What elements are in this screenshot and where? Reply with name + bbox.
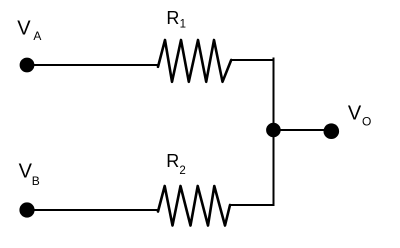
- svg-text:R: R: [166, 8, 179, 28]
- svg-text:O: O: [362, 115, 371, 129]
- terminal VA: [20, 58, 35, 73]
- terminal VB: [19, 202, 34, 217]
- node junction: [266, 123, 281, 138]
- svg-text:B: B: [32, 174, 40, 188]
- wire R1 to vertical: [231, 59, 274, 61]
- resistor R1: [158, 40, 231, 82]
- svg-text:V: V: [348, 102, 362, 124]
- svg-text:1: 1: [180, 19, 186, 31]
- resistor R2: [158, 186, 230, 226]
- wire vertical bus: [273, 58, 275, 207]
- wire VA to R1: [27, 64, 158, 66]
- svg-text:A: A: [33, 29, 41, 43]
- svg-text:R: R: [166, 151, 179, 171]
- svg-text:2: 2: [179, 165, 185, 177]
- wire R2 to vertical: [230, 204, 275, 206]
- terminal VO: [324, 123, 340, 139]
- wire VB to R2: [27, 209, 158, 211]
- svg-text:V: V: [19, 161, 33, 183]
- svg-text:V: V: [17, 17, 31, 39]
- wire junction to VO: [273, 129, 331, 131]
